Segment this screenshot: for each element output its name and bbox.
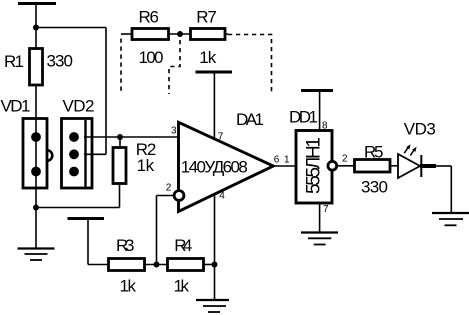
svg-text:1k: 1k	[199, 48, 217, 67]
ground under op-amp	[196, 300, 229, 312]
svg-text:2: 2	[166, 183, 172, 194]
resistor R1	[30, 28, 43, 119]
svg-text:DD1: DD1	[289, 107, 318, 126]
svg-text:2: 2	[342, 153, 348, 164]
svg-text:R3: R3	[116, 236, 135, 255]
svg-text:R1: R1	[4, 52, 24, 71]
svg-text:R7: R7	[196, 8, 217, 27]
node junction R4 right	[212, 262, 218, 268]
wire op-amp output to DD1	[273, 165, 296, 167]
svg-text:7: 7	[218, 131, 224, 142]
node junction R6-R7	[177, 31, 183, 37]
op-amp pin2 inversion bubble	[174, 191, 184, 201]
svg-text:VD2: VD2	[63, 97, 95, 116]
pin 7 power	[196, 72, 233, 139]
DD1 output bubble	[328, 161, 337, 170]
ground under VD3	[432, 213, 469, 225]
resistor R3	[109, 259, 168, 271]
dashed link left	[120, 39, 122, 95]
svg-text:330: 330	[47, 52, 74, 71]
svg-text:R4: R4	[174, 236, 192, 255]
resistor R4	[168, 259, 215, 271]
svg-text:DA1: DA1	[236, 110, 264, 129]
wire through VD1	[35, 119, 37, 208]
wire top horizontal to riser	[36, 27, 106, 29]
svg-text:3: 3	[171, 126, 177, 137]
dashed link middle	[169, 40, 180, 94]
svg-text:330: 330	[361, 178, 388, 197]
wire into VD2 middle circle	[84, 153, 106, 155]
svg-text:140УД608: 140УД608	[181, 158, 248, 177]
wire pin4 to ground	[214, 194, 216, 301]
svg-text:100: 100	[139, 48, 164, 67]
svg-text:555ЛН1: 555ЛН1	[304, 137, 325, 194]
node VD1 bottom junction	[33, 205, 39, 211]
svg-text:6: 6	[274, 154, 280, 165]
resistor R2	[113, 137, 126, 184]
pin 8 power DD1	[301, 91, 333, 131]
svg-text:VD1: VD1	[1, 97, 31, 116]
wire DD1 to R5	[338, 165, 355, 167]
dashed link right	[228, 35, 272, 93]
svg-text:1k: 1k	[120, 277, 137, 296]
node junction below power bar	[33, 25, 39, 31]
wire VD1 junction to R2 bottom	[36, 184, 120, 208]
op-amp U1 triangle	[179, 122, 274, 211]
node junction R2 top	[117, 134, 123, 140]
wire VD3 to ground	[436, 166, 451, 213]
svg-text:R6: R6	[139, 8, 160, 27]
ground under VD1	[18, 249, 55, 261]
photodiode VD1	[23, 119, 52, 189]
svg-text:4: 4	[219, 191, 225, 202]
power bar below VD2	[68, 219, 109, 265]
wire VD1 to ground	[35, 208, 37, 249]
svg-text:R5: R5	[364, 143, 384, 162]
svg-text:1k: 1k	[174, 277, 190, 296]
wire R3-R4 junction to op-amp pin2	[157, 196, 174, 265]
wire VD2 top circle to op-amp input	[84, 136, 179, 138]
svg-text:VD3: VD3	[404, 120, 436, 139]
svg-text:8: 8	[322, 120, 328, 131]
svg-text:1: 1	[284, 154, 290, 165]
resistor R5	[355, 160, 399, 173]
wire riser down to VD2 middle	[105, 28, 107, 155]
LED VD3	[398, 144, 436, 178]
svg-text:7: 7	[323, 204, 329, 215]
pin 7 ground DD1	[301, 203, 338, 245]
node junction R3-R4	[154, 262, 160, 268]
power bar top-left	[18, 4, 56, 28]
svg-text:1k: 1k	[137, 156, 155, 175]
photodiode VD2	[62, 119, 93, 189]
resistor R6	[121, 29, 191, 40]
resistor R7	[191, 29, 229, 40]
inverter DD1 box	[296, 131, 332, 204]
